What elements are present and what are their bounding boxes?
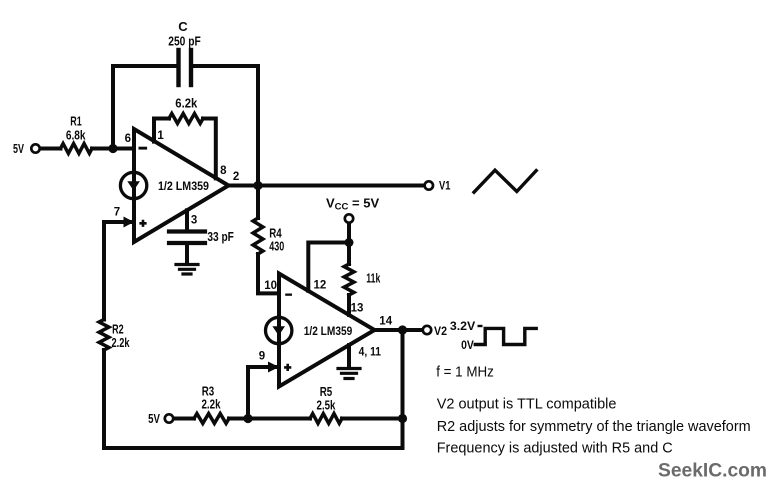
svg-text:2.2k: 2.2k (202, 397, 222, 412)
terminal: V2 output (423, 326, 431, 334)
wire: U2 output pin 14 to V2 terminal (375, 328, 422, 332)
svg-text:V1: V1 (439, 181, 451, 193)
U2 minus marker (285, 294, 292, 296)
svg-text:4, 11: 4, 11 (359, 347, 382, 359)
square waveform at V2 (475, 328, 536, 344)
svg-text:3.2V: 3.2V (450, 319, 475, 333)
svg-text:5V: 5V (13, 142, 24, 156)
svg-text:6.2k: 6.2k (175, 97, 197, 111)
resistor R2 2.2k zigzag (99, 320, 109, 351)
ground (below 33 pF) (176, 265, 198, 275)
svg-text:2: 2 (233, 171, 239, 183)
svg-text:1: 1 (157, 130, 164, 142)
svg-text:V2 output is TTL compatible: V2 output is TTL compatible (437, 397, 617, 413)
svg-text:2.5k: 2.5k (317, 398, 336, 413)
svg-text:33 pF: 33 pF (207, 229, 234, 244)
wire: 5V terminal to R3 (175, 417, 195, 421)
wire: R1 to op-amp U1 inverting input pin 6 (92, 147, 134, 151)
svg-text:10: 10 (264, 280, 277, 292)
op-amp U2 1/2 LM359 triangle (279, 274, 375, 387)
svg-text:250 pF: 250 pF (168, 34, 201, 49)
resistor 11k: lead, zigzag, lead to pin 13 (347, 243, 351, 265)
svg-text:2.2k: 2.2k (112, 335, 131, 350)
capacitor C 250 pF plates (179, 50, 192, 85)
wire: pin 4,11 to ground (347, 345, 351, 367)
svg-text:13: 13 (351, 303, 364, 315)
svg-text:11k: 11k (366, 271, 381, 286)
wire: top feedback loop right segment and vertical to output node (191, 66, 258, 186)
op-amp U1 1/2 LM359 triangle (134, 129, 229, 242)
svg-text:6.8k: 6.8k (66, 128, 86, 143)
wire: Vcc terminal down to node (347, 224, 351, 243)
svg-text:C: C (178, 19, 188, 34)
svg-text:6: 6 (125, 133, 131, 145)
svg-text:Frequency is adjusted with R5: Frequency is adjusted with R5 and C (437, 440, 673, 456)
wire: R3 to node (229, 417, 248, 421)
resistor R5 2.5k zigzag (310, 414, 342, 424)
svg-text:3: 3 (191, 214, 197, 226)
U1 minus marker (139, 147, 148, 150)
arrowhead into pin 9 (268, 362, 279, 373)
terminal: V1 output (425, 181, 433, 189)
svg-text:SeekIC.com: SeekIC.com (658, 460, 767, 481)
resistor R3 2.2k zigzag (194, 414, 229, 424)
junction node at V2 output (398, 325, 407, 334)
U1 plus marker (139, 220, 146, 227)
svg-text:R1: R1 (70, 114, 82, 129)
svg-text:R2 adjusts for symmetry of the: R2 adjusts for symmetry of the triangle … (437, 419, 751, 435)
wire: 33pF to ground (185, 243, 189, 263)
ground (below pin 4,11) (338, 369, 360, 379)
terminal: 5V input (top) (31, 144, 39, 152)
svg-text:9: 9 (259, 351, 265, 363)
svg-text:V2: V2 (434, 326, 447, 338)
wire: top feedback loop left vertical (113, 66, 179, 149)
terminal: 5V input (bottom) (165, 414, 173, 422)
wire: Vcc node left and down to pin 12 (308, 243, 349, 291)
svg-text:5V: 5V (148, 412, 160, 426)
wire: node up to pin 9 (248, 367, 276, 419)
junction node at R3 / pin 9 (243, 414, 252, 423)
current source inside U2 (266, 317, 292, 343)
wire: U1 output pin 2 to V1 terminal (229, 184, 424, 188)
capacitor 33 pF plates (169, 232, 205, 244)
wire: bottom rail (104, 446, 403, 450)
wire: pin 7 non-inverting input, left and down through R2 (104, 222, 130, 320)
wire: 5V input to R1 (41, 147, 61, 151)
junction node at R1 / pin 6 / C (108, 144, 117, 153)
arrowhead into pin 7 (124, 217, 135, 228)
terminal: Vcc (345, 214, 353, 222)
svg-text:8: 8 (220, 165, 227, 177)
svg-text:430: 430 (269, 239, 284, 254)
svg-text:7: 7 (114, 207, 120, 219)
resistor 6.2k feedback: pin1 lead, zigzag, lead to pin 8 (154, 119, 169, 142)
wire: node to R5 (248, 417, 310, 421)
junction node at R5 / V2 (398, 414, 407, 423)
junction node at U1 output (253, 181, 262, 190)
svg-text:1/2 LM359: 1/2 LM359 (304, 326, 353, 338)
wire: R5 to right node, down to rail and up to V2 node (342, 330, 403, 448)
triangle waveform at V1 (474, 170, 536, 192)
svg-text:VCC = 5V: VCC = 5V (326, 196, 379, 213)
svg-text:0V: 0V (461, 338, 474, 352)
U2 plus marker (284, 364, 291, 371)
svg-text:14: 14 (379, 316, 392, 328)
svg-text:1/2 LM359: 1/2 LM359 (158, 181, 209, 193)
junction node at Vcc (345, 238, 354, 247)
dash after 3.2V (478, 325, 483, 327)
resistor R4 430: lead, zigzag, lead to pin 10 (256, 186, 260, 219)
resistor R1 6.8k zigzag (61, 144, 93, 154)
svg-text:f = 1 MHz: f = 1 MHz (436, 363, 494, 380)
svg-text:12: 12 (314, 279, 327, 291)
current source inside U1 (120, 172, 146, 198)
wire: pin 3 lead to 33pF (185, 210, 189, 231)
wire: R2 to bottom rail (102, 350, 106, 448)
